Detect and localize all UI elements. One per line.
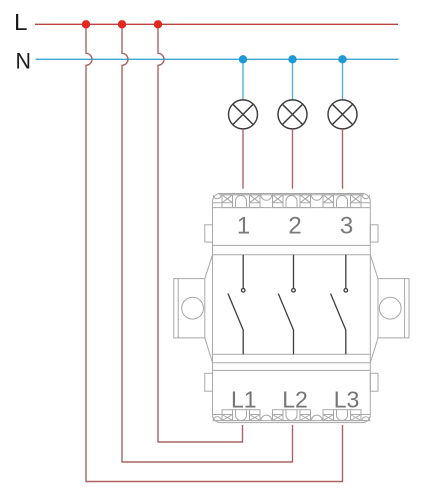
svg-text:N: N [16, 48, 32, 73]
side tab lower left [205, 373, 213, 391]
svg-text:2: 2 [288, 213, 301, 240]
wire N line [36, 58, 399, 60]
terminal 2 top [273, 195, 311, 208]
wire lamp 1 to terminal 1 [242, 129, 244, 189]
wire L to terminal L2 [122, 24, 293, 462]
wire L to terminal L1 [158, 24, 243, 442]
terminal 1 top [222, 195, 260, 208]
wire N to lamp 2 [292, 59, 294, 100]
svg-text:L: L [14, 9, 28, 35]
node junction on L line 2 [118, 20, 126, 28]
switch box body U1 [213, 194, 371, 423]
svg-text:L3: L3 [334, 387, 360, 413]
wire N to lamp 1 [242, 59, 244, 100]
terminal L1 bottom [222, 410, 260, 421]
svg-text:1: 1 [237, 213, 250, 240]
node junction on L line 1 [82, 20, 90, 28]
mounting ear right [370, 255, 409, 363]
terminal 3 top [323, 195, 361, 208]
wire lamp 3 to terminal 3 [342, 129, 344, 189]
side tab upper left [205, 225, 213, 242]
wire L to terminal L3 [86, 24, 343, 481]
mounting ear left [174, 255, 213, 363]
terminal L3 bottom [323, 410, 361, 421]
lamp 3 [328, 100, 357, 129]
wire lamp 2 to terminal 2 [292, 129, 294, 189]
node junction on N line 3 [338, 55, 346, 63]
node junction on L line 3 [154, 20, 162, 28]
side tab upper right [370, 225, 378, 242]
node junction on N line 1 [239, 55, 247, 63]
svg-text:L2: L2 [282, 387, 308, 413]
side tab lower right [370, 373, 378, 391]
svg-text:3: 3 [340, 213, 353, 240]
switch S2 [278, 255, 295, 354]
top strip bumps between terminals [213, 195, 369, 201]
wire N to lamp 3 [342, 59, 344, 100]
node junction on N line 2 [288, 55, 296, 63]
svg-text:L1: L1 [231, 387, 257, 413]
switch S1 [228, 255, 245, 354]
wire L line [35, 23, 398, 25]
bottom strip bumps between terminals [213, 415, 369, 420]
terminal L2 bottom [273, 410, 311, 421]
lamp 1 [229, 100, 258, 129]
lamp 2 [278, 100, 307, 129]
switch S3 [331, 255, 348, 354]
